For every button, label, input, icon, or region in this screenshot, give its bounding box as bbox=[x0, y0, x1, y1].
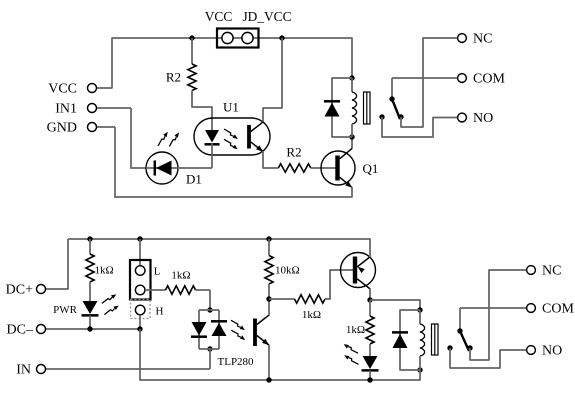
phototransistor TLP280 output bbox=[255, 315, 269, 346]
LED PWR bbox=[82, 282, 119, 329]
wire Q1 collector to coil bbox=[351, 137, 353, 148]
relay coil K2 bbox=[420, 310, 425, 370]
wire NO (bottom) bbox=[450, 348, 527, 368]
svg-text:JD_VCC: JD_VCC bbox=[242, 9, 291, 24]
svg-text:1kΩ: 1kΩ bbox=[302, 309, 321, 321]
wire collector to relay bbox=[370, 300, 420, 310]
terminal NO (bottom) bbox=[527, 346, 536, 355]
node LED-rail junction bbox=[367, 377, 372, 382]
terminal VCC bbox=[97, 37, 113, 88]
svg-text:U1: U1 bbox=[223, 99, 239, 114]
wire TLP emitter to rail bbox=[268, 345, 270, 380]
wire COM (top) bbox=[392, 77, 457, 79]
terminal IN bbox=[46, 368, 211, 370]
wire rail to relay coil bbox=[351, 37, 353, 78]
resistor 1k (PWR) bbox=[86, 239, 94, 282]
svg-text:DC+: DC+ bbox=[6, 282, 33, 297]
terminal IN1 bbox=[97, 108, 147, 168]
svg-text:TLP280: TLP280 bbox=[218, 356, 255, 368]
jumper header L/H bbox=[130, 239, 151, 329]
wire Q1 emitter to ground rail bbox=[351, 187, 353, 197]
transistor Q1 bbox=[321, 148, 355, 188]
node coil bottom bbox=[349, 134, 354, 139]
optocoupler U1 bbox=[194, 118, 270, 155]
node rail-10k junction bbox=[266, 236, 271, 241]
svg-text:NO: NO bbox=[542, 343, 562, 358]
wire relay bottom to rail bbox=[419, 370, 421, 380]
relay core (bottom) bbox=[432, 324, 439, 355]
terminal GND bbox=[97, 127, 116, 198]
svg-text:R2: R2 bbox=[166, 69, 181, 84]
wire R2 to U1 anode bbox=[192, 91, 212, 131]
relay core bbox=[364, 92, 371, 124]
svg-text:VCC: VCC bbox=[48, 81, 77, 96]
svg-text:R2: R2 bbox=[286, 144, 301, 159]
wire U1 collector to rail bbox=[263, 38, 282, 122]
svg-text:VCC: VCC bbox=[205, 9, 233, 24]
node rail-R2 junction bbox=[189, 35, 194, 40]
wire to TLP280 LED bbox=[209, 290, 211, 310]
wire NO (top) bbox=[382, 117, 457, 137]
svg-text:COM: COM bbox=[473, 71, 505, 86]
resistor R2 (vertical) bbox=[188, 38, 196, 90]
svg-text:D1: D1 bbox=[186, 172, 202, 187]
wire R2 to Q1 base bbox=[311, 167, 336, 169]
wire NC (top) bbox=[401, 38, 457, 127]
relay switch (bottom) bbox=[447, 308, 472, 351]
LED D1 bbox=[146, 132, 179, 184]
relay coil K1 bbox=[352, 78, 357, 137]
transistor Q2 (PNP) bbox=[341, 253, 376, 289]
flyback diode D (top relay) bbox=[324, 78, 352, 137]
node relay bottom bbox=[417, 367, 422, 372]
wire rail to Q2 emitter bbox=[369, 239, 371, 257]
wire TLP LED to IN bbox=[209, 349, 211, 369]
svg-text:NC: NC bbox=[473, 31, 492, 46]
node LED-DCminus junction bbox=[87, 326, 92, 331]
svg-text:NC: NC bbox=[542, 263, 561, 278]
node TLP LED top bbox=[207, 307, 212, 312]
node collector bbox=[367, 297, 372, 302]
resistor 1k (LED chain) bbox=[366, 300, 374, 344]
svg-text:GND: GND bbox=[47, 120, 77, 135]
svg-text:NO: NO bbox=[473, 111, 493, 126]
node rail-R junction bbox=[87, 236, 92, 241]
LED indicator (relay on) bbox=[344, 344, 379, 380]
svg-text:1kΩ: 1kΩ bbox=[95, 265, 114, 277]
optocoupler TLP280 input LEDs bbox=[191, 310, 245, 349]
node TLP emitter-rail bbox=[266, 377, 271, 382]
resistor 1k (base) bbox=[269, 270, 353, 303]
svg-text:L: L bbox=[154, 266, 161, 278]
relay switch (top) bbox=[379, 78, 403, 120]
svg-text:1kΩ: 1kΩ bbox=[171, 270, 190, 282]
wire top VCC rail bbox=[112, 37, 352, 39]
svg-text:IN1: IN1 bbox=[55, 101, 77, 116]
svg-text:1kΩ: 1kΩ bbox=[346, 324, 365, 336]
wire bottom VCC rail bbox=[68, 238, 371, 240]
node jumper-DCminus junction bbox=[137, 326, 142, 331]
flyback diode (bottom relay) bbox=[392, 310, 420, 370]
wire COM (bottom) bbox=[460, 307, 527, 309]
wire NC (bottom) bbox=[470, 270, 527, 360]
node rail-jumper junction bbox=[137, 236, 142, 241]
svg-text:IN: IN bbox=[16, 362, 31, 377]
wire bottom ground rail bbox=[139, 379, 420, 381]
terminal COM (bottom) bbox=[527, 304, 536, 313]
terminal COM (top) bbox=[458, 74, 467, 83]
svg-text:10kΩ: 10kΩ bbox=[275, 265, 300, 277]
svg-text:PWR: PWR bbox=[53, 304, 78, 316]
terminal NC (bottom) bbox=[527, 266, 536, 275]
svg-text:COM: COM bbox=[542, 301, 574, 316]
svg-text:Q1: Q1 bbox=[363, 161, 379, 176]
wire DC- to bottom rail bbox=[139, 329, 141, 380]
wire top ground rail bbox=[114, 196, 352, 198]
terminal NC (top) bbox=[458, 34, 467, 43]
resistor 10k bbox=[265, 239, 273, 299]
node base junction bbox=[266, 296, 271, 301]
svg-text:H: H bbox=[156, 306, 164, 318]
resistor R2 (horizontal) bbox=[278, 164, 311, 172]
wire D1 to U1 bbox=[178, 167, 212, 169]
terminal DC- bbox=[46, 328, 141, 330]
resistor 1k (input) bbox=[145, 286, 210, 294]
node TLP LED bottom bbox=[207, 346, 212, 351]
terminal DC+ bbox=[46, 239, 69, 289]
node relay top bbox=[417, 307, 422, 312]
wire TLP collector bbox=[268, 299, 270, 315]
wire U1 emitter to R2 bbox=[263, 151, 279, 168]
node coil top bbox=[349, 75, 354, 80]
svg-text:DC–: DC– bbox=[7, 322, 34, 337]
wire Q2 collector bbox=[369, 289, 371, 301]
wire U1 cathode to D1 bbox=[211, 143, 213, 168]
node rail-U1 junction bbox=[279, 35, 284, 40]
terminal NO (top) bbox=[458, 113, 467, 122]
jumper JD_VCC bbox=[217, 29, 259, 48]
